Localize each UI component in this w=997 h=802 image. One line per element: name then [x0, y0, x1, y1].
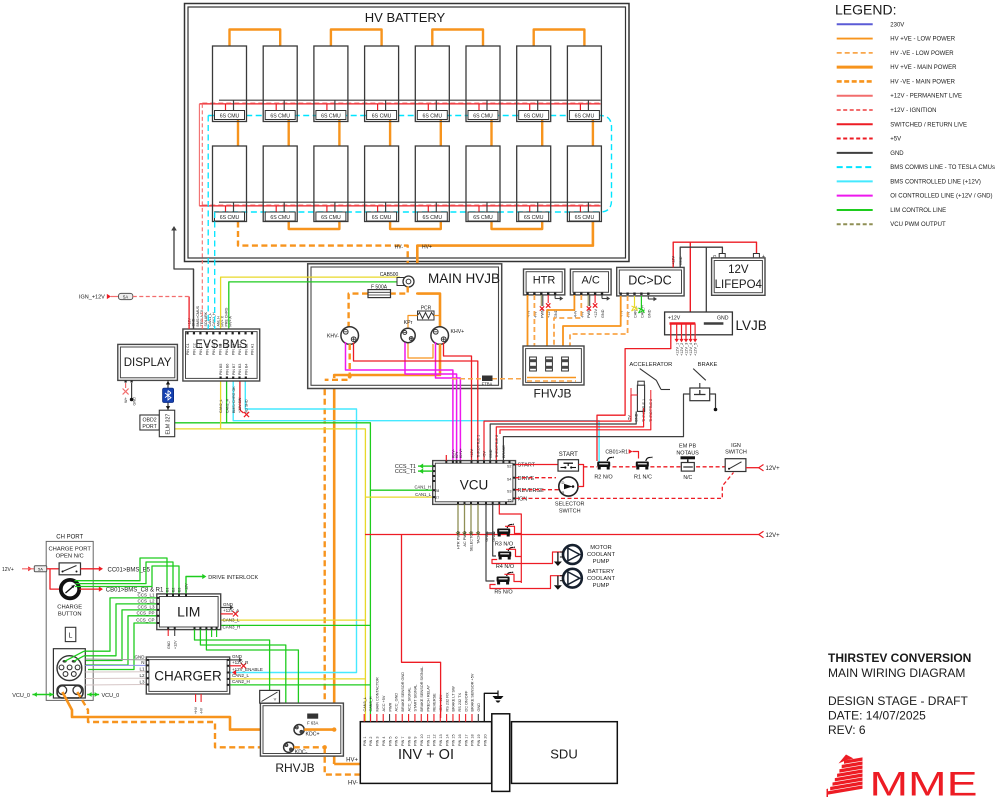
svg-text:CB01>R1: CB01>R1 — [605, 449, 628, 455]
svg-text:OI CONTROLLED LINE (+12V / GND: OI CONTROLLED LINE (+12V / GND) — [890, 194, 992, 200]
svg-text:PIN A2: PIN A2 — [231, 344, 235, 355]
svg-text:R: R — [562, 490, 565, 495]
svg-text:SWITCHED / RETURN LIVE: SWITCHED / RETURN LIVE — [890, 122, 967, 128]
svg-text:LVJB: LVJB — [736, 318, 767, 333]
svg-text:FTBA: FTBA — [482, 382, 493, 387]
svg-text:+12V: +12V — [185, 583, 189, 592]
svg-text:V: V — [274, 697, 277, 702]
svg-text:CAB500: CAB500 — [380, 272, 399, 278]
svg-text:ACC_SIGNAL: ACC_SIGNAL — [407, 687, 411, 711]
svg-text:PIN A4: PIN A4 — [212, 344, 216, 355]
svg-text:6S CMU: 6S CMU — [473, 215, 493, 221]
svg-text:BRAKE SENSOR GND: BRAKE SENSOR GND — [401, 672, 405, 712]
svg-text:GND: GND — [135, 655, 146, 660]
svg-text:ACC_GND: ACC_GND — [395, 693, 399, 712]
svg-text:NOTAUS: NOTAUS — [676, 450, 699, 456]
svg-text:HV+: HV+ — [346, 758, 358, 764]
svg-text:L2: L2 — [139, 673, 145, 678]
svg-text:6S CMU: 6S CMU — [422, 113, 442, 119]
svg-text:CAN3_L: CAN3_L — [223, 618, 241, 623]
svg-text:L3: L3 — [139, 679, 145, 684]
svg-text:HV -VE - MAIN POWER: HV -VE - MAIN POWER — [890, 79, 955, 85]
svg-text:L: L — [69, 633, 73, 640]
svg-text:PIN 4: PIN 4 — [382, 737, 386, 747]
svg-text:PIN 7: PIN 7 — [401, 737, 405, 747]
svg-text:12V: 12V — [728, 264, 749, 276]
svg-text:PIN B8: PIN B8 — [218, 344, 222, 355]
svg-text:RHVJB: RHVJB — [275, 761, 314, 775]
svg-text:6S CMU: 6S CMU — [422, 215, 442, 221]
svg-text:+12V_3: +12V_3 — [685, 343, 689, 356]
svg-text:R5 N/O: R5 N/O — [494, 590, 513, 596]
svg-text:5A: 5A — [123, 294, 128, 299]
svg-text:DATE: 14/07/2025: DATE: 14/07/2025 — [828, 709, 926, 723]
svg-text:CHARGE: CHARGE — [57, 605, 82, 611]
svg-text:PIN 1: PIN 1 — [363, 737, 367, 747]
svg-text:PIN B3: PIN B3 — [238, 364, 242, 375]
svg-text:28: 28 — [435, 489, 439, 493]
svg-text:COOLANT: COOLANT — [587, 576, 615, 582]
svg-text:GND: GND — [679, 256, 683, 265]
svg-text:PIN B5: PIN B5 — [219, 364, 223, 375]
svg-text:INV + OI: INV + OI — [398, 747, 454, 763]
svg-text:+12V - IGNITION: +12V - IGNITION — [890, 108, 936, 114]
svg-text:6S CMU: 6S CMU — [372, 113, 392, 119]
svg-text:PIN 3: PIN 3 — [376, 737, 380, 747]
svg-text:BRAKE: BRAKE — [502, 445, 506, 458]
svg-text:VCU: VCU — [460, 478, 489, 493]
svg-text:PIN 13: PIN 13 — [439, 734, 443, 746]
svg-text:LIM CONTROL LINE: LIM CONTROL LINE — [890, 208, 946, 214]
svg-text:VCU_0: VCU_0 — [12, 693, 30, 699]
svg-text:6S CMU: 6S CMU — [575, 113, 595, 119]
svg-text:LIM: LIM — [177, 604, 200, 620]
svg-text:PUMP: PUMP — [593, 583, 610, 589]
svg-text:12V+: 12V+ — [2, 567, 14, 573]
svg-text:12V+: 12V+ — [766, 533, 781, 539]
svg-text:+12V_2: +12V_2 — [680, 343, 684, 356]
svg-text:ELM 327: ELM 327 — [166, 414, 172, 435]
svg-text:ACCELERATOR: ACCELERATOR — [629, 362, 672, 368]
svg-text:CCS_T1: CCS_T1 — [395, 469, 416, 475]
svg-text:CAN2_H: CAN2_H — [232, 679, 250, 684]
svg-text:CAN2_L: CAN2_L — [232, 673, 250, 678]
svg-text:CCS_CP: CCS_CP — [136, 618, 154, 623]
svg-text:6S CMU: 6S CMU — [270, 113, 290, 119]
svg-text:+5V: +5V — [483, 451, 487, 458]
svg-text:DRIVE: DRIVE — [518, 476, 535, 482]
svg-text:BRAKE: BRAKE — [698, 362, 718, 368]
svg-text:PIN B7: PIN B7 — [232, 364, 236, 375]
svg-text:REV: 6: REV: 6 — [828, 723, 866, 737]
svg-text:CCS_L2: CCS_L2 — [137, 598, 155, 603]
svg-text:PIN 6: PIN 6 — [395, 737, 399, 747]
svg-text:DC>DC: DC>DC — [628, 274, 671, 288]
svg-text:S3: S3 — [507, 490, 512, 494]
svg-text:W+: W+ — [124, 396, 128, 403]
svg-text:6S CMU: 6S CMU — [473, 113, 493, 119]
svg-text:B2: B2 — [172, 588, 176, 592]
svg-text:CHARGER: CHARGER — [154, 669, 222, 684]
svg-text:MAIN HVJB: MAIN HVJB — [428, 271, 500, 286]
svg-text:BMS>CHRG OK: BMS>CHRG OK — [232, 386, 236, 413]
svg-text:BRAKE SENSOR SIGNAL: BRAKE SENSOR SIGNAL — [420, 667, 424, 712]
svg-text:27: 27 — [435, 496, 439, 500]
svg-text:+12V_5: +12V_5 — [694, 343, 698, 356]
svg-text:CCS_L3: CCS_L3 — [137, 604, 155, 609]
svg-text:MME: MME — [870, 766, 978, 798]
svg-text:IGN: IGN — [518, 497, 528, 503]
svg-text:THIRSTEV CONVERSION: THIRSTEV CONVERSION — [828, 651, 971, 665]
svg-text:6S CMU: 6S CMU — [220, 113, 240, 119]
svg-text:+12V_1: +12V_1 — [675, 343, 679, 356]
svg-text:PIN B2: PIN B2 — [244, 344, 248, 355]
svg-text:B3: B3 — [178, 588, 182, 592]
svg-text:KDC+: KDC+ — [306, 732, 320, 738]
svg-text:PIN 11: PIN 11 — [426, 735, 430, 746]
svg-text:THROTTLE 1: THROTTLE 1 — [476, 435, 480, 458]
svg-text:LEGEND:: LEGEND: — [835, 2, 896, 18]
svg-text:KHV-: KHV- — [327, 334, 339, 340]
svg-text:HTR: HTR — [533, 275, 556, 287]
svg-text:KHV+: KHV+ — [451, 329, 465, 335]
svg-text:OPEN N/C: OPEN N/C — [56, 553, 84, 559]
svg-text:RS 232 TX: RS 232 TX — [458, 693, 462, 712]
svg-text:R1 N/C: R1 N/C — [634, 475, 652, 481]
svg-text:GND: GND — [232, 654, 243, 659]
svg-text:F 63A: F 63A — [307, 721, 318, 726]
svg-text:+HV: +HV — [573, 310, 577, 318]
svg-text:CCS_PP: CCS_PP — [136, 610, 154, 615]
svg-text:PIN 10: PIN 10 — [420, 734, 424, 746]
svg-text:CAN3_H: CAN3_H — [369, 696, 373, 711]
svg-text:KDC-: KDC- — [295, 749, 308, 755]
svg-text:SWITCH: SWITCH — [559, 509, 581, 515]
svg-text:DESIGN STAGE - DRAFT: DESIGN STAGE - DRAFT — [828, 694, 968, 708]
svg-text:START: START — [518, 463, 536, 469]
svg-text:MAIN CONTACTOR: MAIN CONTACTOR — [376, 677, 380, 712]
svg-text:TACHO: TACHO — [477, 531, 481, 544]
svg-text:HV-: HV- — [348, 781, 358, 787]
svg-text:HV BATTERY: HV BATTERY — [365, 10, 446, 25]
svg-text:PIN B6: PIN B6 — [226, 364, 230, 375]
svg-text:PIN 18: PIN 18 — [471, 734, 475, 746]
svg-text:HV-: HV- — [395, 245, 404, 251]
svg-text:IGN_+12V: IGN_+12V — [79, 295, 105, 301]
svg-text:GND: GND — [890, 151, 904, 157]
svg-text:CAN1_L: CAN1_L — [415, 492, 431, 497]
svg-text:15: 15 — [507, 498, 511, 502]
svg-text:BATTERY: BATTERY — [588, 569, 614, 575]
svg-text:+12V: +12V — [470, 449, 474, 458]
svg-text:PIN 17: PIN 17 — [464, 734, 468, 746]
svg-text:+12V: +12V — [594, 309, 598, 318]
svg-text:CAN2_L: CAN2_L — [219, 399, 223, 413]
svg-text:GND: GND — [223, 602, 234, 607]
svg-text:COOLANT: COOLANT — [587, 552, 615, 558]
svg-text:GND: GND — [647, 309, 651, 318]
svg-text:THROTTLE 2: THROTTLE 2 — [495, 435, 499, 458]
svg-text:+12V_ENABLE: +12V_ENABLE — [232, 667, 263, 672]
svg-text:N/C: N/C — [683, 475, 692, 481]
svg-text:BRAKE SENSOR +5V: BRAKE SENSOR +5V — [471, 673, 475, 711]
svg-text:+12V: +12V — [668, 316, 681, 322]
svg-text:PIN 19: PIN 19 — [477, 734, 481, 746]
svg-text:R3 N/O: R3 N/O — [495, 542, 514, 548]
svg-text:CAN3_L: CAN3_L — [363, 697, 367, 711]
svg-text:B1: B1 — [166, 588, 170, 592]
svg-text:CAN2_H: CAN2_H — [226, 398, 230, 413]
svg-text:6S CMU: 6S CMU — [321, 113, 341, 119]
svg-text:230V: 230V — [890, 22, 904, 28]
svg-text:HV -VE - LOW POWER: HV -VE - LOW POWER — [890, 51, 954, 57]
svg-text:XD SHD: XD SHD — [244, 399, 248, 413]
svg-text:REVERSE: REVERSE — [433, 693, 437, 712]
svg-text:+12V: +12V — [174, 640, 178, 649]
svg-text:PIN C4: PIN C4 — [206, 343, 210, 355]
svg-text:6S CMU: 6S CMU — [220, 215, 240, 221]
svg-text:S4: S4 — [507, 478, 512, 482]
svg-text:GND: GND — [601, 309, 605, 318]
svg-text:PIN 15: PIN 15 — [452, 734, 456, 746]
svg-text:PIN A3: PIN A3 — [225, 344, 229, 355]
svg-text:GND: GND — [477, 703, 481, 712]
svg-text:6S CMU: 6S CMU — [321, 215, 341, 221]
svg-text:6S CMU: 6S CMU — [270, 215, 290, 221]
svg-text:PIN 2: PIN 2 — [369, 737, 373, 747]
svg-text:6S CMU: 6S CMU — [575, 215, 595, 221]
svg-text:FHVJB: FHVJB — [533, 387, 571, 401]
svg-text:PIN C2: PIN C2 — [193, 343, 197, 355]
svg-text:VCU_0: VCU_0 — [102, 693, 120, 699]
svg-text:GND: GND — [489, 449, 493, 458]
svg-text:GND: GND — [717, 316, 729, 322]
svg-text:PIN 12: PIN 12 — [433, 734, 437, 746]
svg-text:GND: GND — [167, 641, 171, 649]
svg-text:R2 N/O: R2 N/O — [594, 475, 613, 481]
svg-text:12V+: 12V+ — [766, 466, 781, 472]
svg-text:BMS COMMS LINE - TO TESLA CMUs: BMS COMMS LINE - TO TESLA CMUs — [890, 165, 995, 171]
svg-text:PIN 20: PIN 20 — [483, 734, 487, 746]
svg-text:BUTTON: BUTTON — [58, 612, 82, 618]
svg-text:EM PB: EM PB — [679, 444, 696, 450]
svg-text:PUMP: PUMP — [593, 559, 610, 565]
svg-text:RS 232 RX: RS 232 RX — [445, 692, 449, 711]
svg-text:6S CMU: 6S CMU — [524, 113, 544, 119]
svg-text:R4 N/O: R4 N/O — [496, 564, 515, 570]
svg-text:L1: L1 — [139, 667, 145, 672]
svg-text:CCS_L1: CCS_L1 — [137, 592, 155, 597]
svg-text:CH PORT: CH PORT — [56, 535, 83, 541]
svg-text:GND: GND — [133, 397, 137, 406]
svg-text:PIN 16: PIN 16 — [458, 734, 462, 746]
svg-text:+12V_R: +12V_R — [232, 660, 249, 665]
svg-text:-HV: -HV — [200, 707, 204, 714]
svg-text:CHARGE PORT: CHARGE PORT — [48, 547, 91, 553]
svg-text:HV +VE - LOW POWER: HV +VE - LOW POWER — [890, 37, 956, 43]
svg-text:CB01>BMS_C8 & R1: CB01>BMS_C8 & R1 — [106, 588, 164, 594]
svg-text:PIN B4: PIN B4 — [244, 364, 248, 375]
svg-text:AC PWM: AC PWM — [463, 531, 467, 547]
svg-text:HV+: HV+ — [422, 245, 432, 251]
svg-text:PIN B1: PIN B1 — [238, 344, 242, 355]
svg-text:A/C: A/C — [582, 275, 600, 287]
svg-text:MOTOR: MOTOR — [590, 545, 611, 551]
svg-text:PIN A1: PIN A1 — [251, 344, 255, 355]
svg-text:REVERSE: REVERSE — [518, 488, 545, 494]
svg-text:START SIGNAL: START SIGNAL — [414, 684, 418, 711]
svg-text:HV+ A: HV+ A — [229, 316, 233, 327]
svg-text:+12V SW: +12V SW — [238, 397, 242, 413]
svg-text:BRAKE LT SW: BRAKE LT SW — [452, 686, 456, 712]
svg-text:PORT: PORT — [142, 424, 157, 430]
svg-text:+12V_A: +12V_A — [223, 608, 239, 613]
svg-text:SELECTOR: SELECTOR — [470, 531, 474, 552]
svg-text:PIN 9: PIN 9 — [414, 737, 418, 747]
svg-text:6S CMU: 6S CMU — [372, 215, 392, 221]
svg-text:+12V_4: +12V_4 — [689, 343, 693, 356]
svg-text:N: N — [141, 660, 144, 665]
svg-text:BMS CONTROLLED LINE (+12V): BMS CONTROLLED LINE (+12V) — [890, 179, 981, 185]
svg-text:PIN 5: PIN 5 — [388, 737, 392, 747]
svg-text:KPr: KPr — [404, 320, 413, 326]
svg-text:HTR PWM: HTR PWM — [457, 531, 461, 549]
svg-text:CAN3_H: CAN3_H — [223, 624, 241, 629]
svg-text:START: START — [559, 452, 578, 458]
svg-text:GND1: GND1 — [485, 531, 489, 542]
svg-text:PIN C1: PIN C1 — [186, 343, 190, 355]
svg-text:CAN1_H: CAN1_H — [414, 485, 431, 490]
svg-text:+12V - PERMANENT LIVE: +12V - PERMANENT LIVE — [890, 94, 962, 100]
svg-text:DRIVE INTERLOCK: DRIVE INTERLOCK — [208, 575, 258, 581]
svg-text:HV +VE - MAIN POWER: HV +VE - MAIN POWER — [890, 65, 957, 71]
svg-text:DC ON/OFF: DC ON/OFF — [464, 690, 468, 712]
svg-text:GND2: GND2 — [492, 531, 496, 542]
svg-text:DISPLAY: DISPLAY — [124, 357, 172, 369]
svg-text:+12V: +12V — [672, 256, 676, 265]
svg-text:KHV+: KHV+ — [459, 447, 463, 458]
svg-text:CC01>BMS_B5: CC01>BMS_B5 — [108, 567, 151, 573]
svg-text:PWR: PWR — [388, 702, 392, 711]
svg-text:SWITCH: SWITCH — [725, 450, 747, 456]
svg-text:PIN C3: PIN C3 — [199, 343, 203, 355]
svg-text:S2: S2 — [507, 465, 512, 469]
svg-text:PIN 8: PIN 8 — [407, 737, 411, 747]
svg-text:PIN 14: PIN 14 — [445, 734, 449, 746]
svg-text:5A: 5A — [38, 567, 43, 572]
svg-text:+5V: +5V — [890, 137, 901, 143]
svg-text:SDU: SDU — [550, 747, 577, 762]
svg-text:VCU PWM OUTPUT: VCU PWM OUTPUT — [890, 222, 946, 228]
svg-text:6S CMU: 6S CMU — [524, 215, 544, 221]
svg-text:ACC +5V: ACC +5V — [382, 695, 386, 711]
svg-text:OBD2: OBD2 — [143, 418, 157, 424]
svg-text:SELECTOR: SELECTOR — [555, 502, 585, 508]
svg-text:MAIN WIRING DIAGRAM: MAIN WIRING DIAGRAM — [828, 666, 965, 680]
svg-text:+HV: +HV — [194, 706, 198, 714]
svg-text:IGN: IGN — [731, 443, 741, 449]
svg-text:PRECH RELAY: PRECH RELAY — [426, 685, 430, 712]
svg-text:LIFEPO4: LIFEPO4 — [715, 279, 763, 291]
